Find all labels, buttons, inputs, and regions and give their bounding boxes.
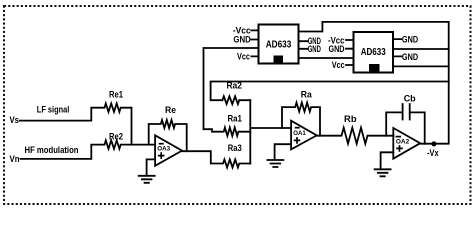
svg-text:Re: Re <box>165 105 176 115</box>
svg-text:Ra: Ra <box>301 90 313 100</box>
svg-text:Ra3: Ra3 <box>228 143 242 153</box>
svg-text:Vn: Vn <box>10 154 20 164</box>
svg-text:OA2: OA2 <box>396 139 410 146</box>
svg-text:Vs: Vs <box>10 115 20 125</box>
svg-text:GND: GND <box>402 35 419 45</box>
svg-text:OA1: OA1 <box>293 130 306 137</box>
svg-text:LF signal: LF signal <box>37 105 70 115</box>
svg-text:Ra1: Ra1 <box>227 113 242 123</box>
svg-text:AD633: AD633 <box>361 47 386 58</box>
svg-text:AD633: AD633 <box>266 40 292 51</box>
svg-text:Re1: Re1 <box>109 90 123 100</box>
svg-text:Vcc: Vcc <box>332 60 345 70</box>
svg-text:GND: GND <box>233 35 251 45</box>
svg-text:Rb: Rb <box>344 114 357 124</box>
svg-text:GND: GND <box>329 44 345 54</box>
svg-text:-Vx: -Vx <box>427 148 439 158</box>
svg-text:Vcc: Vcc <box>237 51 250 61</box>
svg-text:GND: GND <box>402 52 419 62</box>
svg-text:Ra2: Ra2 <box>226 80 242 90</box>
svg-text:Re2: Re2 <box>109 132 123 142</box>
svg-text:Cb: Cb <box>404 94 416 104</box>
svg-text:HF modulation: HF modulation <box>25 145 79 155</box>
svg-text:GND: GND <box>308 44 322 54</box>
svg-text:OA3: OA3 <box>157 145 170 152</box>
